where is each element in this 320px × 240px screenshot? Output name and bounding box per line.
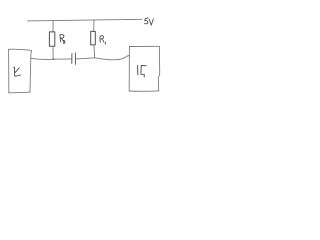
wire +5V supply rail bbox=[28, 19, 143, 21]
label 5V bbox=[145, 18, 154, 25]
wire left IC to capacitor bbox=[31, 58, 71, 59]
node A junction bbox=[52, 58, 54, 60]
resistor R1 bbox=[91, 31, 96, 45]
label R1 bbox=[100, 36, 106, 44]
capacitor right plate bbox=[74, 53, 76, 64]
right IC box bbox=[129, 46, 160, 91]
label IC (right box) bbox=[138, 65, 147, 77]
label IC (left box) bbox=[14, 67, 21, 76]
label R2 bbox=[60, 35, 65, 44]
wire node B to right IC bbox=[95, 56, 130, 60]
wire R1 to node B bbox=[93, 45, 96, 58]
wire rail to R1 bbox=[93, 20, 95, 32]
resistor R2 bbox=[49, 32, 54, 46]
wire capacitor to node B bbox=[76, 58, 95, 59]
wire rail to R2 bbox=[52, 20, 54, 32]
wire R2 to node A bbox=[52, 46, 54, 59]
left IC box bbox=[8, 49, 31, 93]
capacitor left plate bbox=[71, 54, 73, 64]
